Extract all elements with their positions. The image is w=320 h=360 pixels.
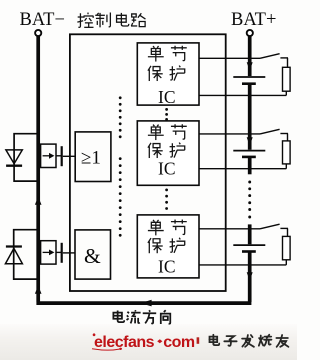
ellipsis dots column between gates bbox=[119, 96, 122, 236]
transistor Q2 (switch block) bbox=[41, 241, 56, 264]
logo elecfans.com bbox=[92, 333, 195, 351]
OR gate U4 bbox=[75, 132, 111, 182]
label 单节保护IC (U3) bbox=[148, 220, 187, 254]
svg-text:elecfans: elecfans bbox=[94, 334, 155, 351]
row2 wires and switch S2 bbox=[199, 129, 288, 168]
arrow up on BAT- bus (lower) bbox=[35, 286, 42, 294]
gate bar Q2 bbox=[56, 251, 61, 253]
diode D2 loop wires bbox=[14, 230, 39, 279]
arrow up on BAT- bus (between diode loops) bbox=[35, 197, 42, 205]
IC box U1 bbox=[137, 43, 199, 105]
svg-text:IC: IC bbox=[158, 159, 176, 179]
slogan 电子发烧友 bbox=[210, 335, 289, 347]
resistor R2 bbox=[283, 141, 291, 164]
arrow down on BAT+ bus row3 bbox=[247, 272, 253, 280]
diode D1 loop wires bbox=[14, 134, 38, 181]
wire BAT+ bus segment 5 bbox=[248, 252, 252, 302]
wire BAT- bus vertical bbox=[36, 36, 40, 301]
label 单节保护IC (U1) bbox=[148, 46, 187, 81]
resistor R1 bbox=[283, 67, 291, 91]
arrow current direction left (bottom bus) bbox=[141, 300, 152, 307]
red mark before slogan bbox=[197, 337, 200, 344]
svg-text:com: com bbox=[163, 334, 195, 351]
battery cell 1 bbox=[233, 76, 265, 78]
node dots BAT+ bus (omitted cells) bbox=[248, 181, 251, 219]
battery cell 2 bbox=[233, 150, 265, 152]
wire gate Q2 to AND gate bbox=[63, 252, 75, 254]
label 控制电路 bbox=[77, 13, 145, 28]
IC box U2 bbox=[137, 121, 199, 185]
arrow down on BAT+ bus row2 bbox=[247, 137, 253, 145]
wire bottom return bus bbox=[36, 301, 251, 305]
svg-text:BAT+: BAT+ bbox=[231, 10, 276, 30]
label 单节保护IC (U2) bbox=[148, 124, 187, 158]
row1 wires and switch S1 bbox=[199, 54, 288, 96]
svg-text:≥1: ≥1 bbox=[81, 148, 101, 169]
terminal BAT+ bbox=[247, 30, 253, 36]
AND gate U5 bbox=[75, 230, 111, 279]
wire BAT+ bus segment 4 bbox=[248, 224, 252, 244]
label 电流方向 bbox=[113, 310, 170, 324]
footer banner background bbox=[0, 324, 297, 360]
diode D2 bbox=[6, 245, 22, 247]
svg-text:&: & bbox=[84, 244, 101, 268]
diode D1 bbox=[6, 150, 22, 164]
transistor Q1 (switch block) bbox=[41, 144, 56, 167]
wire BAT+ bus segment 2 bbox=[248, 85, 252, 150]
resistor R3 bbox=[283, 236, 291, 259]
wire BAT+ bus segment 3 bbox=[248, 158, 252, 175]
wire BAT+ bus segment 1 bbox=[248, 36, 252, 76]
ellipsis dots between IC1 and IC2 bbox=[165, 108, 168, 121]
svg-text:IC: IC bbox=[158, 257, 176, 277]
IC box U3 bbox=[137, 215, 199, 278]
battery cell 3 bbox=[233, 244, 265, 246]
svg-text:IC: IC bbox=[158, 87, 176, 107]
control circuit box bbox=[70, 34, 226, 291]
wire gate Q1 to OR gate bbox=[63, 155, 75, 157]
terminal BAT- bbox=[35, 30, 41, 36]
svg-text:BAT−: BAT− bbox=[20, 10, 65, 30]
gate bar Q1 bbox=[56, 155, 61, 157]
row3 wires and switch S3 bbox=[199, 224, 288, 265]
arrow down on BAT+ bus row1 bbox=[247, 62, 253, 70]
ellipsis dots between IC2 and IC3 bbox=[165, 189, 168, 210]
